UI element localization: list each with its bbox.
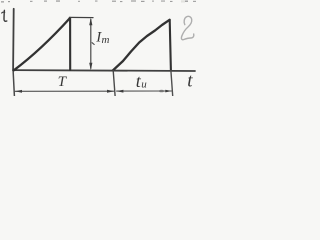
ramp 1 of sawtooth xyxy=(14,18,70,70)
paper background xyxy=(0,0,202,96)
svg-text:t: t xyxy=(187,71,193,92)
t axis (horizontal) xyxy=(13,69,195,72)
T dim arrow left xyxy=(15,90,22,93)
pencil handwritten 2 xyxy=(181,16,193,39)
tu dim arrow right xyxy=(165,90,172,93)
tu dim arrow left xyxy=(116,90,123,93)
T dim arrow right xyxy=(107,90,114,93)
extension below axis from drop 2 xyxy=(171,71,173,96)
Im arrow head bottom xyxy=(89,63,92,71)
pencil smudge near tu arrow xyxy=(159,90,164,93)
extension line at end of period T xyxy=(113,70,115,96)
i axis (vertical) with extension below t axis xyxy=(12,9,15,71)
label i flag stroke xyxy=(2,11,5,14)
Im arrow shaft xyxy=(90,20,92,69)
i axis extension below t axis xyxy=(13,70,14,96)
tick right of Im arrow xyxy=(92,43,94,45)
tu dimension line xyxy=(117,90,172,92)
ramp 2 of sawtooth xyxy=(113,20,170,71)
drop 1 of sawtooth xyxy=(69,18,71,70)
top edge scan specks xyxy=(1,0,196,2)
drop 2 of sawtooth + extension line xyxy=(170,20,171,71)
T dimension line xyxy=(15,90,114,92)
peak reference line xyxy=(69,16,93,18)
Im arrow head top xyxy=(89,18,92,25)
label i on vertical axis xyxy=(4,10,7,21)
